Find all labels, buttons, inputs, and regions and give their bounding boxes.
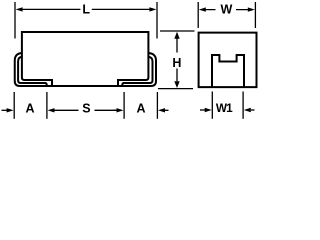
extension line L right [156,2,158,39]
arrowhead A1 inward-pointing left [7,108,14,112]
capacitor body outline (front view) with bottom steps [22,32,148,86]
extension line L left [14,2,16,39]
extension line A2 right [156,92,158,119]
svg-text:L: L [82,2,90,16]
extension line H top [160,30,195,32]
arrowhead L right [149,7,156,11]
svg-text:W1: W1 [216,101,233,115]
dimension line A1 leader left [2,109,8,111]
arrowhead W1 right [244,108,251,112]
extension line H bottom [158,88,193,90]
extension line A1 left [13,92,15,119]
terminal left inner fold line with end cap [18,57,47,86]
svg-text:H: H [172,56,181,70]
svg-text:W: W [220,2,232,16]
side view body rectangle [199,33,257,88]
terminal left outer profile + seating bottom line + terminal right outer profile [15,53,156,86]
extension line S/A2 right [123,92,125,119]
dimension line W1 leader right [251,109,255,111]
dimension line L [22,8,150,10]
arrowhead W right (outward) [248,7,255,11]
dimension line H [176,38,178,81]
arrowhead W left (outward) [199,7,206,11]
dimension line A2 leader left [113,109,117,111]
terminal right inner fold line with end cap [122,57,152,86]
arrowhead A2 inward-pointing right [158,108,165,112]
svg-text:S: S [82,102,90,116]
arrowhead H up [174,32,179,39]
arrowhead W1 left [205,108,212,112]
arrowhead L left [16,7,23,11]
side view terminal tab with notch [212,55,244,87]
extension line W left [197,2,199,28]
extension line W1 left [211,92,213,119]
extension line W1 right [242,92,244,119]
dimension line W1 leader left [200,109,205,111]
arrowhead A1 inward-pointing right [48,108,55,112]
extension line W right [254,2,256,28]
svg-text:A: A [25,102,34,116]
dimension line W [206,9,249,11]
arrowhead S right / A2 inward-pointing left [117,108,124,112]
arrowhead H down [174,81,179,88]
dimension line A2 leader right [165,109,169,111]
svg-text:A: A [136,102,145,116]
extension line A1/S left [46,92,48,119]
dimension line S [54,109,116,111]
